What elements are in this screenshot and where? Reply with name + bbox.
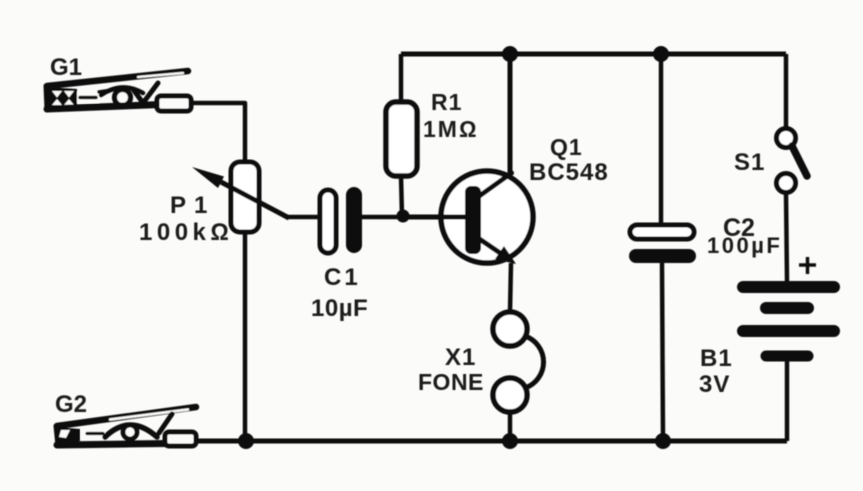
wire P1 bottom to rail: [243, 232, 248, 441]
transistor Q1: [441, 171, 533, 263]
svg-text:G2: G2: [55, 391, 87, 418]
wire C1 to base: [362, 215, 467, 220]
svg-text:100kΩ: 100kΩ: [139, 219, 233, 246]
P1 wiper arrow: [221, 182, 289, 218]
wire base inside circle: [403, 215, 467, 220]
svg-text:B1: B1: [700, 345, 733, 372]
svg-text:100µF: 100µF: [707, 233, 782, 258]
wire wiper to C1: [288, 215, 320, 220]
top rail wire: [401, 52, 786, 57]
bottom rail wire: [194, 439, 787, 444]
potentiometer P1: [231, 162, 259, 232]
plus sign: [799, 257, 816, 274]
svg-text:R1: R1: [431, 89, 462, 115]
switch S1: [777, 129, 796, 148]
capacitor C2: [630, 225, 694, 239]
clip G2: [55, 407, 196, 446]
node base/R1 junction: [397, 210, 410, 223]
svg-text:G1: G1: [50, 54, 82, 81]
wire X1 to rail: [508, 412, 513, 441]
node X1 bottom: [502, 433, 518, 449]
wire emitter to X1: [510, 263, 511, 312]
clip G1: [46, 71, 191, 111]
wire C2 bottom lead: [662, 263, 663, 441]
resistor R1: [386, 102, 417, 176]
svg-text:1MΩ: 1MΩ: [423, 116, 479, 142]
wire top rail to S1: [784, 54, 789, 129]
svg-text:S1: S1: [734, 149, 765, 176]
wire C2 top lead: [659, 54, 664, 226]
svg-text:3V: 3V: [699, 371, 730, 398]
svg-text:FONE: FONE: [418, 369, 484, 395]
svg-text:10µF: 10µF: [311, 295, 368, 322]
earphone X1: [493, 312, 527, 346]
node collector top: [502, 46, 518, 62]
wire G1 to P1: [190, 103, 245, 163]
svg-text:X1: X1: [445, 344, 476, 371]
node P1 bottom: [238, 433, 254, 449]
wire battery to rail: [785, 361, 790, 441]
base bar: [465, 186, 481, 254]
wire R1 bottom lead: [401, 176, 402, 216]
battery B1: [743, 281, 834, 293]
wire R1 top lead: [399, 54, 404, 102]
emitter with arrow: [478, 238, 503, 255]
capacitor C1: [320, 190, 336, 253]
node C2 bottom: [655, 433, 671, 449]
wire S1 to battery: [786, 192, 787, 282]
svg-text:Q1: Q1: [550, 134, 583, 160]
svg-text:BC548: BC548: [529, 159, 609, 186]
svg-text:P1: P1: [170, 192, 215, 219]
svg-text:C1: C1: [324, 264, 361, 291]
node C2 top: [653, 46, 669, 62]
wire collector: [478, 54, 512, 197]
